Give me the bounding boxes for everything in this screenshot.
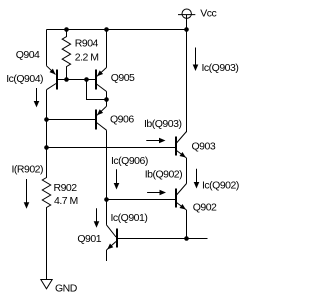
svg-text:Vcc: Vcc xyxy=(200,8,216,20)
svg-text:4.7 M: 4.7 M xyxy=(54,195,78,207)
svg-text:Q906: Q906 xyxy=(110,114,134,126)
svg-text:Ic(Q902): Ic(Q902) xyxy=(202,180,239,192)
svg-text:Ic(Q903): Ic(Q903) xyxy=(202,62,239,74)
svg-text:Q904: Q904 xyxy=(16,49,40,61)
svg-text:Ic(Q901): Ic(Q901) xyxy=(111,212,148,224)
svg-text:Q903: Q903 xyxy=(192,141,216,153)
svg-text:2.2 M: 2.2 M xyxy=(75,52,99,64)
svg-text:Q905: Q905 xyxy=(111,72,135,84)
svg-text:R902: R902 xyxy=(54,182,78,194)
svg-text:GND: GND xyxy=(55,283,78,295)
svg-text:Q901: Q901 xyxy=(77,233,101,245)
svg-text:R904: R904 xyxy=(75,37,99,49)
svg-text:I(R902): I(R902) xyxy=(12,164,44,176)
svg-text:Ic(Q904): Ic(Q904) xyxy=(6,73,43,85)
svg-text:Ib(Q902): Ib(Q902) xyxy=(145,169,182,181)
svg-text:Ic(Q906): Ic(Q906) xyxy=(111,155,148,167)
svg-text:Q902: Q902 xyxy=(193,202,217,214)
svg-text:Ib(Q903): Ib(Q903) xyxy=(144,118,181,130)
